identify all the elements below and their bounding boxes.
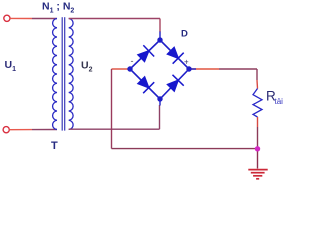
node bridge left (127, 66, 132, 71)
bridge bottom lead (159, 99, 161, 106)
svg-text:U1: U1 (5, 59, 17, 73)
node bridge right (186, 66, 191, 71)
wire bridge plus node to load (189, 69, 258, 89)
resistor Rtai zigzag (253, 89, 262, 118)
bridge rectifier D frame (130, 40, 189, 99)
diode D2 top-right (168, 48, 184, 64)
transformer T primary winding (53, 19, 57, 130)
node bridge top (157, 37, 162, 42)
transformer T secondary winding (69, 19, 73, 130)
wire top-left terminal to transformer (10, 17, 57, 19)
svg-text:+: + (184, 58, 189, 67)
transformer T core (62, 17, 64, 130)
svg-text:-: - (131, 56, 134, 66)
node bridge bottom (157, 96, 162, 101)
bridge right lead (189, 68, 196, 70)
wire secondary bottom to bridge bottom (69, 105, 160, 129)
svg-text:N1 ; N2: N1 ; N2 (42, 1, 74, 15)
svg-text:D: D (181, 28, 188, 39)
diode D3 bottom-left (138, 77, 154, 93)
junction dot (255, 146, 260, 151)
wire junction to ground (257, 149, 259, 169)
svg-text:T: T (51, 140, 58, 152)
wire secondary top to bridge (69, 19, 160, 33)
wire bottom rail (112, 148, 258, 150)
wire bottom-left terminal to transformer (10, 129, 58, 131)
diode D1 top-left (138, 45, 154, 61)
diode D4 bottom-right (168, 75, 184, 91)
svg-text:tải: tải (275, 97, 284, 106)
terminal input top (4, 15, 10, 21)
bridge top lead (159, 32, 161, 41)
terminal input bottom (3, 127, 9, 133)
wire resistor bottom to rail (257, 117, 259, 149)
ground (248, 170, 267, 179)
wire bridge minus node to bottom rail (112, 69, 131, 149)
svg-text:U2: U2 (81, 60, 93, 74)
